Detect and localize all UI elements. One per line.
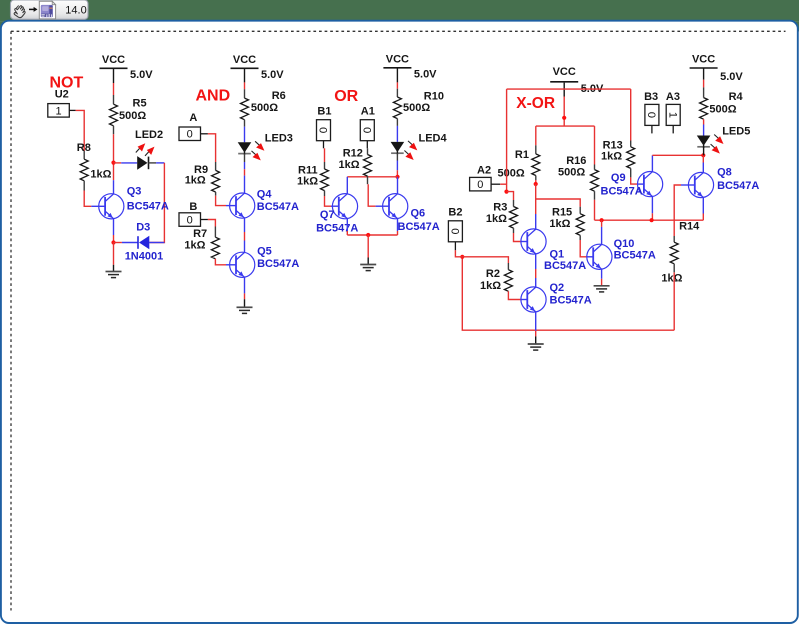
wire B to R7 [201, 219, 208, 221]
resistor R12 [364, 155, 372, 177]
toolbar hand (pan) icon [14, 6, 25, 18]
svg-text:BC547A: BC547A [544, 260, 586, 272]
svg-text:0: 0 [187, 129, 193, 141]
wire Q7 emitter to ground node [346, 219, 348, 231]
svg-text:LED3: LED3 [265, 133, 293, 145]
svg-text:Q1: Q1 [550, 248, 565, 260]
wire LED3 to Q4 collector [244, 154, 246, 162]
pin A3 [672, 126, 674, 134]
toolbar document icon [39, 1, 55, 19]
wire right rail down to D3 [149, 163, 164, 243]
svg-text:500Ω: 500Ω [119, 110, 146, 122]
svg-text:0: 0 [449, 228, 461, 234]
node B2 [460, 255, 464, 259]
svg-text:R6: R6 [272, 90, 286, 102]
desktop green strip behind toolbar [0, 0, 799, 21]
resistor R1 [532, 154, 540, 176]
resistor R5 [110, 104, 118, 126]
wire node to R3 [507, 192, 514, 200]
svg-text:Q3: Q3 [127, 186, 142, 198]
wire R2 to Q2 base [508, 291, 520, 299]
svg-text:1: 1 [55, 105, 61, 117]
svg-text:BC547A: BC547A [398, 221, 440, 233]
LED4 [391, 141, 418, 160]
resistor R4 [700, 98, 708, 120]
svg-text:A: A [189, 112, 197, 124]
svg-text:Q2: Q2 [550, 282, 565, 294]
svg-text:1kΩ: 1kΩ [549, 218, 570, 230]
VCC supply X-OR right [690, 54, 744, 84]
wire node to R2 [462, 257, 508, 263]
resistor R6 [241, 98, 249, 120]
wire LED5 to node [703, 147, 705, 156]
svg-text:R3: R3 [493, 201, 507, 213]
resistor R3 [510, 207, 518, 229]
svg-text:1kΩ: 1kΩ [339, 159, 360, 171]
wire R7 to Q5 base [215, 259, 226, 265]
node OR emitters [366, 233, 370, 237]
LED3 [238, 141, 265, 160]
svg-text:500Ω: 500Ω [709, 104, 736, 116]
wire VCC mid down [563, 83, 565, 97]
wire node to Q7 collector [347, 176, 397, 178]
wire node to Q10 collector [601, 220, 603, 227]
ground OR [360, 265, 376, 271]
wire node down to Q1 collector [535, 184, 537, 214]
resistor R13 [627, 147, 635, 169]
svg-text:LED4: LED4 [419, 132, 448, 144]
wire Q5 emitter to ground [244, 277, 246, 293]
wire R14 to bottom rail [673, 264, 675, 273]
svg-text:Q10: Q10 [614, 238, 635, 250]
ground NOT [106, 272, 122, 278]
bottom rail X-OR [462, 257, 674, 330]
resistor R10 [393, 97, 401, 119]
svg-text:1kΩ: 1kΩ [661, 273, 682, 285]
wire rail right end up to Q8 emitter [702, 214, 704, 221]
svg-text:B3: B3 [644, 91, 658, 103]
svg-text:VCC: VCC [102, 54, 125, 66]
svg-text:BC547A: BC547A [550, 294, 592, 306]
wire R15 to Q10 base [579, 235, 581, 240]
node A2 R3 [504, 190, 508, 194]
svg-text:5.0V: 5.0V [130, 69, 153, 81]
ground Q10 [594, 286, 610, 292]
node Q10 collector [600, 218, 604, 222]
svg-text:B: B [189, 201, 197, 213]
svg-text:0: 0 [477, 179, 483, 191]
resistor R16 [591, 170, 599, 192]
wire Q8 base to R14 [681, 184, 695, 186]
svg-text:R7: R7 [193, 228, 207, 240]
wire node to Q6 collector [397, 177, 399, 194]
wire VCC to R10 [396, 68, 398, 83]
wire Q3 emitter to ground node [113, 219, 115, 235]
svg-text:500Ω: 500Ω [498, 167, 525, 179]
svg-text:5.0V: 5.0V [720, 71, 743, 83]
wire R8 to Q3 base [83, 181, 85, 191]
wire R11 to Q7 base [324, 191, 326, 196]
wire VCC to R5 [113, 68, 115, 83]
wire R6 to LED3 [244, 120, 246, 127]
transistor Q4 [230, 193, 255, 218]
resistor R7 [211, 237, 219, 259]
svg-text:Q7: Q7 [320, 209, 335, 221]
svg-text:X-OR: X-OR [516, 95, 555, 112]
wire R10 to LED4 [396, 119, 398, 126]
VCC supply NOT [100, 54, 154, 81]
transistor Q2 [521, 287, 546, 312]
wire down to R16 [594, 126, 596, 164]
emitter rail X-OR [595, 219, 704, 221]
svg-text:0: 0 [317, 127, 329, 133]
wire LED4 to collector node [396, 153, 398, 160]
wire LED5 node to Q8 collector [702, 155, 704, 162]
node LED5 cathode [701, 153, 705, 157]
wire R5 to LED2 node [113, 126, 115, 134]
wire node to D3 cathode [114, 242, 122, 244]
svg-text:U2: U2 [55, 89, 69, 101]
svg-text:A3: A3 [666, 91, 680, 103]
svg-text:LED5: LED5 [722, 125, 750, 137]
svg-text:R8: R8 [77, 142, 91, 154]
wire Q1 emitter to Q2 collector [535, 254, 537, 269]
wire emitter rail OR [347, 234, 397, 236]
svg-text:1kΩ: 1kΩ [185, 174, 206, 186]
svg-text:0: 0 [361, 127, 373, 133]
svg-text:BC547A: BC547A [316, 222, 358, 234]
svg-text:BC547A: BC547A [717, 180, 759, 192]
wire R12 to Q6 base [367, 176, 369, 184]
resistor R8 [80, 159, 88, 181]
svg-text:1kΩ: 1kΩ [486, 213, 507, 225]
wire R3 to Q1 base [513, 228, 515, 233]
node emitter junction [111, 240, 115, 244]
wire node to Q3 collector [113, 180, 115, 193]
resistor R14 [670, 242, 678, 264]
transistor Q10 [587, 244, 612, 269]
transistor Q5 [230, 252, 255, 277]
svg-text:B2: B2 [448, 206, 462, 218]
VCC supply X-OR mid [550, 66, 604, 95]
svg-text:AND: AND [196, 87, 231, 104]
svg-text:Q5: Q5 [257, 245, 272, 257]
ground AND [237, 307, 253, 313]
svg-text:500Ω: 500Ω [558, 167, 585, 179]
wire U2 to R8 [69, 109, 75, 111]
svg-text:0: 0 [187, 215, 193, 227]
svg-text:500Ω: 500Ω [251, 102, 278, 114]
svg-text:A2: A2 [477, 165, 491, 177]
sheet boundary dashed top edge [11, 30, 786, 32]
svg-text:1N4001: 1N4001 [125, 251, 164, 263]
svg-text:500Ω: 500Ω [403, 102, 430, 114]
wire VCC to R4 [703, 68, 705, 80]
svg-text:R2: R2 [486, 268, 500, 280]
svg-text:5.0V: 5.0V [414, 68, 437, 80]
svg-text:R10: R10 [424, 90, 444, 102]
wire Q10 emitter to ground [601, 269, 603, 278]
LED2 [136, 143, 155, 170]
wire Q6 emitter to rail [397, 219, 399, 231]
svg-text:R5: R5 [133, 97, 147, 109]
VCC supply AND [231, 54, 285, 81]
wire R13 to Q9 base [630, 168, 632, 177]
resistor R2 [504, 270, 512, 292]
wire down to R1 [535, 126, 537, 145]
svg-text:1kΩ: 1kΩ [184, 240, 205, 252]
X-OR top rail [507, 88, 631, 90]
wire node to LED2 anode [114, 162, 122, 164]
VCC supply OR [383, 54, 437, 81]
svg-text:1kΩ: 1kΩ [480, 280, 501, 292]
wire B1 to R11 [323, 141, 325, 149]
svg-text:BC547A: BC547A [257, 201, 299, 213]
resistor R11 [321, 169, 329, 191]
svg-text:B1: B1 [317, 106, 331, 118]
svg-text:R14: R14 [679, 221, 700, 233]
wire LED2 cathode to right rail [148, 162, 156, 164]
svg-text:5.0V: 5.0V [261, 69, 284, 81]
floating toolbar [11, 0, 89, 19]
svg-text:OR: OR [334, 88, 358, 105]
toolbar arrow icon [29, 7, 38, 12]
node Q9 emitter [650, 218, 654, 222]
wire VCC rail to R1 and R16 [536, 125, 595, 127]
wire R1 to Q1 collector node [535, 176, 537, 181]
node VCC mid [562, 116, 566, 120]
wire Q4 emitter to Q5 collector [244, 218, 246, 232]
sheet boundary dashed left edge [10, 31, 12, 610]
resistor R9 [212, 170, 220, 192]
transistor Q6 [383, 194, 408, 219]
wire B2 to node [454, 242, 456, 251]
node OR collectors [395, 175, 399, 179]
wire node to ground [113, 243, 115, 265]
svg-text:14.0: 14.0 [65, 5, 86, 17]
transistor Q8 [688, 172, 713, 197]
pin B3 [651, 126, 653, 134]
svg-text:1kΩ: 1kΩ [297, 175, 318, 187]
wire R4 to LED5 [703, 119, 705, 124]
svg-text:LED2: LED2 [135, 129, 163, 141]
svg-text:R4: R4 [729, 91, 744, 103]
transistor Q7 [332, 194, 357, 219]
resistor R15 [576, 214, 584, 236]
wire R9 to Q4 base [215, 192, 217, 196]
svg-text:BC547A: BC547A [127, 201, 169, 213]
wire VCC to R6 [244, 68, 246, 82]
wire Q9 emitter to rail [651, 197, 653, 214]
svg-text:D3: D3 [136, 222, 150, 234]
LED5 [697, 135, 724, 154]
wire A2 to node [491, 183, 500, 185]
node collector junction [111, 161, 115, 165]
svg-text:R1: R1 [515, 149, 529, 161]
svg-text:1kΩ: 1kΩ [601, 150, 622, 162]
svg-text:0: 0 [645, 112, 657, 118]
svg-text:R16: R16 [566, 155, 586, 167]
wire node to ground [367, 235, 369, 258]
ground Q2 [528, 344, 544, 350]
wire top rail down to R13 [630, 89, 632, 140]
svg-text:A1: A1 [361, 106, 375, 118]
svg-text:Q9: Q9 [611, 172, 626, 184]
svg-text:Q4: Q4 [257, 188, 273, 200]
svg-text:Q8: Q8 [717, 166, 732, 178]
diode D3 1N4001 [138, 236, 149, 250]
svg-text:BC547A: BC547A [614, 249, 656, 261]
svg-text:BC547A: BC547A [601, 185, 643, 197]
svg-text:VCC: VCC [233, 54, 256, 66]
wire Q2 emitter to ground [535, 312, 537, 331]
wire R16 to emitter rail [594, 191, 596, 200]
svg-text:1kΩ: 1kΩ [90, 168, 111, 180]
svg-text:BC547A: BC547A [257, 258, 299, 270]
wire D3 anode to right rail [149, 242, 164, 244]
transistor Q3 [99, 194, 124, 219]
node R1 bottom [534, 182, 538, 186]
wire branch to R15 [536, 199, 581, 207]
wire Q9 collector up to LED5 node [651, 155, 653, 171]
wire A to R9 [201, 133, 208, 135]
svg-text:Q6: Q6 [411, 207, 426, 219]
wire top rail down to A2 node [506, 89, 508, 192]
svg-text:VCC: VCC [386, 54, 409, 66]
svg-text:R15: R15 [552, 206, 572, 218]
svg-text:VCC: VCC [692, 54, 715, 66]
svg-text:1: 1 [666, 112, 678, 118]
wire A1 to R12 [366, 141, 368, 149]
svg-text:VCC: VCC [553, 66, 576, 78]
transistor Q9 [638, 172, 663, 197]
transistor Q1 [521, 229, 546, 254]
